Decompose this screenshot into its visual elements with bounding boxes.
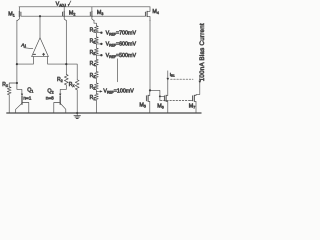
wire opamp plus input <box>48 57 78 80</box>
wire ladder segment <box>95 55 97 59</box>
svg-text:RX: RX <box>69 82 76 88</box>
ground rail <box>7 112 201 114</box>
svg-text:M7: M7 <box>189 104 196 110</box>
transistor M1 <box>18 7 20 12</box>
wire diode connection to mirror gates <box>150 90 160 96</box>
svg-text:M5: M5 <box>139 103 146 109</box>
wire ladder segment <box>95 66 97 71</box>
svg-text:n=8: n=8 <box>46 96 54 101</box>
svg-text:VREF=100mV: VREF=100mV <box>103 89 134 95</box>
resistor Rx (left) <box>9 83 17 87</box>
svg-text:100nA Bias Current: 100nA Bias Current <box>199 23 206 81</box>
resistor R2 (series with Q2) <box>64 74 68 85</box>
wire ladder segment <box>95 44 97 48</box>
svg-text:R2: R2 <box>57 77 63 83</box>
svg-text:Q2: Q2 <box>47 88 53 94</box>
svg-text:M2: M2 <box>69 10 76 16</box>
resistor R4 <box>95 59 99 66</box>
transistor Q2 (n=8) <box>59 94 61 96</box>
svg-text:Q1: Q1 <box>27 87 33 93</box>
svg-text:M1: M1 <box>8 11 15 17</box>
wire to Q1 emitter <box>17 83 22 95</box>
svg-text:R2: R2 <box>90 84 96 90</box>
node: opamp output to gate bus junction <box>39 15 41 17</box>
node minus-input junction <box>16 63 18 65</box>
svg-text:A1: A1 <box>20 42 26 48</box>
wire ladder segment <box>95 33 97 37</box>
svg-text:R4: R4 <box>90 61 96 67</box>
svg-text:n=1: n=1 <box>23 96 31 101</box>
transistor M6 <box>167 71 169 96</box>
resistor R5 <box>95 48 99 55</box>
svg-text:IB1: IB1 <box>170 72 175 78</box>
transistor Q1 (n=1) <box>21 94 23 96</box>
svg-text:M6: M6 <box>157 103 164 109</box>
svg-text:R7: R7 <box>90 27 96 33</box>
svg-text:+: + <box>42 52 45 57</box>
node tap VREF=600mV <box>96 43 101 45</box>
wire M2 drain / node VE2 column <box>65 20 67 74</box>
wire M4 drain column <box>149 20 151 90</box>
wire M1 drain / node VE1 column <box>16 20 18 83</box>
resistor R7 <box>95 26 99 33</box>
svg-text:R6: R6 <box>90 39 96 45</box>
node tap VREF=700mV <box>96 32 101 34</box>
svg-text:VREF=500mV: VREF=500mV <box>106 53 137 59</box>
node Rx branch junction <box>16 82 18 84</box>
transistor M7 <box>196 76 200 96</box>
wire dashed gate ellipsis to M7 <box>161 100 191 102</box>
wire ladder segment <box>95 79 97 84</box>
ground symbol <box>76 113 78 115</box>
resistor R1 <box>95 94 99 101</box>
wire M3 drain to ladder <box>94 20 96 26</box>
wire opamp output <box>39 16 41 38</box>
resistor R6 <box>95 37 99 44</box>
resistor Rx (right) <box>75 80 79 90</box>
wire M5 drain sense segment <box>117 59 119 82</box>
wire ladder segment <box>95 90 97 94</box>
wire opamp minus input <box>17 57 34 65</box>
transistor M4 <box>147 7 150 12</box>
svg-text:R3: R3 <box>90 73 96 79</box>
transistor M2 <box>63 7 65 12</box>
resistor R2b <box>95 83 99 90</box>
svg-text:RX: RX <box>2 82 9 88</box>
node ground junction <box>76 112 78 114</box>
svg-text:R1: R1 <box>90 95 96 101</box>
svg-text:VREF=600mV: VREF=600mV <box>106 42 137 48</box>
wire ladder bottom to ground <box>95 101 97 114</box>
gate bus wire <box>21 15 146 17</box>
svg-text:VREF=700mV: VREF=700mV <box>106 30 137 36</box>
svg-text:M3: M3 <box>97 10 104 16</box>
node tap VREF=100mV <box>96 90 100 92</box>
node mirror gate junction <box>159 95 161 97</box>
top supply rail VADJ <box>19 6 150 8</box>
resistor R3 <box>95 72 99 79</box>
op-amp A1 <box>32 38 49 57</box>
VADJ arrow to rail <box>69 1 71 5</box>
IB1 current arrow <box>167 78 170 81</box>
transistor M5 <box>149 90 151 95</box>
A1 leader line <box>24 48 33 49</box>
node plus-input junction <box>65 63 67 65</box>
svg-text:R5: R5 <box>90 50 96 56</box>
transistor M3 <box>91 7 93 12</box>
node tap VREF=500mV <box>96 54 101 56</box>
wire dashed output ellipsis <box>171 78 193 80</box>
node M5 diode junction <box>149 89 151 91</box>
svg-text:M4: M4 <box>152 9 159 15</box>
wire to Q2 emitter <box>60 85 66 95</box>
